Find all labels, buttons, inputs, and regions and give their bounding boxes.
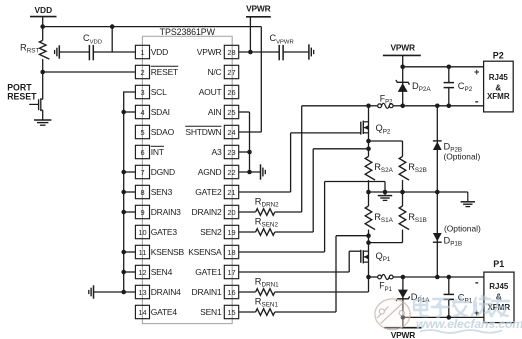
node C_P1 top [447, 275, 452, 280]
svg-text:GATE4: GATE4 [151, 307, 178, 317]
pin 24 SHTDWN [224, 125, 238, 138]
resistor R_SEN2 [239, 231, 256, 233]
svg-text:AIN: AIN [208, 107, 222, 117]
wire C_VPWR to ground [283, 51, 309, 53]
node source R_S2B [366, 139, 371, 144]
node source SEN2 [366, 147, 371, 152]
wire C_VDD to pin 1 [93, 51, 135, 53]
pin 26 AOUT [224, 85, 238, 98]
ground at DRAIN4 bus [93, 285, 95, 298]
node D_P2A bottom [400, 104, 405, 109]
svg-text:www.elecfans.com: www.elecfans.com [416, 317, 522, 331]
svg-text:-: - [475, 276, 479, 288]
pin 1 VDD [135, 45, 149, 58]
pin 11 KSENSB [135, 245, 149, 258]
pin 17 GATE1 [224, 265, 238, 278]
capacitor C_VDD [88, 45, 90, 60]
resistor R_S2B [399, 157, 409, 181]
diode D_P1B [436, 192, 438, 277]
wire ground to C_VDD [59, 51, 89, 53]
wire pin 28 to C_VPWR [239, 51, 280, 53]
pin 8 SEN3 [135, 185, 149, 198]
svg-text:KSENSA: KSENSA [188, 247, 222, 257]
capacitor C_VPWR [278, 45, 280, 60]
svg-text:SHTDWN: SHTDWN [185, 127, 221, 137]
svg-text:DRAIN3: DRAIN3 [151, 207, 181, 217]
svg-text:11: 11 [139, 248, 147, 257]
pin 2 RESET [135, 65, 149, 78]
ground at C_VPWR [308, 44, 310, 59]
svg-text:13: 13 [138, 288, 146, 297]
node AGND [247, 170, 252, 175]
svg-text:INT: INT [151, 147, 164, 157]
node D_P2B top [435, 104, 440, 109]
resistor R_RST [42, 27, 44, 41]
wire port2 plus rail [403, 66, 484, 68]
connector P2 box [484, 61, 514, 112]
pin 22 AGND [224, 165, 238, 178]
svg-text:RESET: RESET [7, 91, 37, 101]
svg-text:19: 19 [227, 228, 235, 237]
svg-text:SEN2: SEN2 [200, 227, 222, 237]
svg-text:KSENSB: KSENSB [151, 247, 185, 257]
svg-text:21: 21 [227, 188, 235, 197]
wire AIN riser [239, 111, 250, 113]
svg-text:SCL: SCL [151, 87, 167, 97]
resistor R_DRN1 [239, 291, 256, 293]
svg-text:17: 17 [227, 268, 235, 277]
svg-text:DRAIN2: DRAIN2 [192, 207, 222, 217]
svg-text:23: 23 [227, 148, 235, 157]
pin 18 KSENSA [224, 245, 238, 258]
wire SDAI to bus [124, 111, 136, 113]
node VPWR pin28 [248, 50, 253, 55]
pin 10 GATE3 [135, 225, 149, 238]
watermark logo [375, 299, 410, 330]
node VDD/C_VDD junction [110, 24, 115, 29]
pin 7 DGND [135, 165, 149, 178]
resistor R_DRN2 [239, 211, 256, 213]
svg-text:4: 4 [140, 108, 144, 117]
svg-text:N/C: N/C [207, 67, 221, 77]
wire SHTDWN riser [260, 27, 262, 132]
node VPWR rail2 top [400, 65, 405, 70]
wire RESET to pin 2 [43, 71, 136, 73]
svg-text:A3: A3 [212, 147, 222, 157]
pin 28 VPWR [224, 45, 238, 58]
svg-text:12: 12 [138, 268, 146, 277]
node C_P1 bottom [447, 315, 452, 320]
node bus KSENSB [121, 250, 126, 255]
wire SCL bus corner [124, 92, 136, 292]
ground at C_VDD [58, 45, 60, 58]
svg-text:SEN4: SEN4 [151, 267, 173, 277]
wire port1 minus rail [403, 276, 484, 278]
svg-text:VPWR: VPWR [391, 43, 415, 53]
svg-text:15: 15 [227, 308, 235, 317]
svg-text:22: 22 [227, 168, 235, 177]
svg-text:6: 6 [140, 148, 144, 157]
node bus SEN4 [121, 270, 126, 275]
wire AGND to ground [239, 171, 261, 173]
svg-text:VPWR: VPWR [391, 330, 415, 339]
svg-text:26: 26 [227, 88, 235, 97]
resistor R_SEN1 [239, 311, 256, 313]
wire port2 minus rail [403, 105, 484, 107]
wire DRAIN3 to bus [124, 211, 136, 213]
svg-text:GATE1: GATE1 [195, 267, 222, 277]
svg-text:P1: P1 [493, 259, 504, 269]
wire SEN1 route [275, 311, 336, 313]
svg-text:18: 18 [227, 248, 235, 257]
pin 9 DRAIN3 [135, 205, 149, 218]
wire C_VDD drop [111, 27, 113, 52]
svg-text:24: 24 [227, 128, 235, 137]
wire DRAIN4 to ground [94, 291, 136, 293]
svg-text:P2: P2 [493, 50, 504, 60]
fuse F_P1 [369, 276, 378, 278]
ground at PORT RESET [34, 119, 51, 121]
svg-text:VPWR: VPWR [197, 47, 222, 57]
diode D_P2B [436, 106, 438, 192]
svg-text:TPS23861PW: TPS23861PW [160, 27, 216, 37]
svg-text:AOUT: AOUT [199, 87, 222, 97]
svg-text:VDD: VDD [34, 5, 52, 15]
wire SEN2 route [275, 231, 313, 233]
svg-text:+: + [474, 67, 479, 77]
pin 5 SDAO [135, 125, 149, 138]
svg-text:-: - [475, 95, 479, 107]
svg-text:VPWR: VPWR [246, 3, 270, 13]
pin 23 A3 [224, 145, 238, 158]
node rail KSENSA [383, 190, 388, 195]
wire SEN4 to bus [124, 271, 136, 273]
wire VDD top rail [43, 26, 262, 28]
wire GATE1 route [239, 271, 350, 273]
wire DGND to bus [124, 171, 136, 173]
IC U1 TPS23861PW outline [142, 36, 232, 323]
svg-text:GATE3: GATE3 [151, 227, 178, 237]
node D_P1A top [401, 275, 406, 280]
wire R_S1B bottom link [369, 242, 403, 244]
node rail R_S2A [366, 190, 371, 195]
diode D_P2A zener [402, 67, 404, 106]
svg-text:9: 9 [140, 208, 144, 217]
svg-text:7: 7 [140, 168, 144, 177]
wire KSENSA route [239, 251, 325, 253]
svg-text:VDD: VDD [151, 47, 168, 57]
node bus SEN3 [121, 190, 126, 195]
svg-text:5: 5 [140, 128, 144, 137]
pin 16 DRAIN1 [224, 285, 238, 298]
svg-text:SEN1: SEN1 [200, 307, 222, 317]
resistor R_S1B [402, 192, 404, 206]
node C_P2 top [447, 65, 452, 70]
svg-text:(Optional): (Optional) [444, 151, 481, 161]
svg-text:SDAI: SDAI [151, 107, 170, 117]
svg-text:16: 16 [227, 288, 235, 297]
svg-text:20: 20 [227, 208, 235, 217]
resistor R_S2A [365, 157, 375, 181]
wire GATE2 route [239, 191, 291, 193]
node bus DRAIN3 [121, 210, 126, 215]
node bus DRAIN4 [121, 290, 126, 295]
pin 27 N/C [224, 65, 238, 78]
wire A3 to riser [239, 151, 250, 153]
pin 3 SCL [135, 85, 149, 98]
wire DRAIN1 route [275, 291, 369, 293]
wire KSENSB to bus [124, 251, 136, 253]
svg-text:DRAIN1: DRAIN1 [192, 287, 222, 297]
node source SEN1 [366, 233, 371, 238]
power symbol VPWR bottom [402, 317, 404, 327]
fuse F_P2 [369, 105, 378, 107]
wire port1 plus rail [403, 316, 484, 318]
wire sense ground rail [369, 191, 468, 193]
node RESET junction [40, 70, 45, 75]
svg-text:8: 8 [140, 188, 144, 197]
pin 15 SEN1 [224, 305, 238, 318]
node rail diode chain [435, 190, 440, 195]
node Q_P1 drain [366, 275, 371, 280]
node VPWR rail1 [401, 315, 406, 320]
svg-text:RJ45: RJ45 [489, 282, 509, 291]
transistor PORT RESET FET [42, 72, 44, 99]
svg-text:XFMR: XFMR [487, 92, 510, 101]
capacitor C_P2 [448, 67, 450, 83]
pin 20 DRAIN2 [224, 205, 238, 218]
node bus DGND [121, 170, 126, 175]
node rail R_S2B [400, 190, 405, 195]
node D_P1B bottom [435, 275, 440, 280]
svg-text:DRAIN4: DRAIN4 [151, 287, 181, 297]
pin 4 SDAI [135, 105, 149, 118]
svg-text:DGND: DGND [151, 167, 175, 177]
svg-text:10: 10 [138, 228, 146, 237]
pin 19 SEN2 [224, 225, 238, 238]
transistor Q_P2 [368, 106, 370, 157]
ground at sense rail [384, 192, 386, 196]
svg-text:GATE2: GATE2 [195, 187, 222, 197]
node C_P2 bottom [447, 104, 452, 109]
svg-text:25: 25 [227, 108, 235, 117]
svg-text:SEN3: SEN3 [151, 187, 173, 197]
node A3 [247, 150, 252, 155]
connector P1 box [484, 272, 514, 323]
svg-text:(Optional): (Optional) [444, 223, 481, 233]
capacitor C_P1 [448, 277, 450, 294]
ground at rail right end [467, 192, 469, 202]
ground at AGND [260, 164, 262, 179]
svg-text:14: 14 [138, 308, 146, 317]
wire SEN3 to bus [124, 191, 136, 193]
resistor R_S1A [368, 192, 370, 206]
svg-text:1: 1 [140, 48, 144, 57]
pin 6 INT [135, 145, 149, 158]
svg-text:27: 27 [227, 68, 235, 77]
node VDD/R_RST junction [40, 24, 45, 29]
wire DRAIN2 route [275, 211, 302, 213]
diode D_P1A zener [402, 277, 404, 317]
watermark underline swoosh [420, 330, 502, 333]
svg-text:28: 28 [227, 48, 235, 57]
node Q_P2 drain [366, 104, 371, 109]
pin 21 GATE2 [224, 185, 238, 198]
svg-text:SDAO: SDAO [151, 127, 175, 137]
wire R_S2B top link [369, 140, 403, 142]
pin 25 AIN [224, 105, 238, 118]
svg-text:RESET: RESET [151, 67, 178, 77]
pin 13 DRAIN4 [135, 285, 149, 298]
pin 14 GATE4 [135, 305, 149, 318]
svg-text:3: 3 [140, 88, 144, 97]
pin 12 SEN4 [135, 265, 149, 278]
node bus SDAI [121, 110, 126, 115]
transistor Q_P1 [363, 250, 368, 252]
svg-text:AGND: AGND [198, 167, 222, 177]
node source R_S1B [366, 240, 371, 245]
svg-text:RJ45: RJ45 [489, 73, 509, 82]
svg-text:2: 2 [140, 68, 144, 77]
